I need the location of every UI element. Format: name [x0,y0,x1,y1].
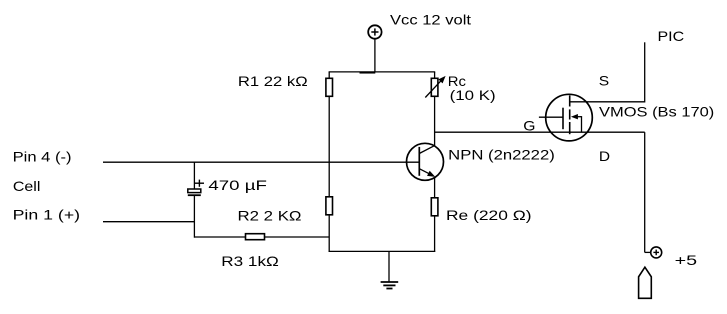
svg-text:(10 K): (10 K) [450,87,496,103]
connector plug symbol [639,267,652,298]
svg-text:Pin 1 (+): Pin 1 (+) [13,207,81,223]
wire Vcc stem [374,39,376,73]
power symbol Vcc [368,25,381,38]
wire right rail Re to bottom bus [434,216,436,252]
svg-text:+5: +5 [675,252,698,268]
transistor Q1 NPN [407,143,444,180]
wire R3 row [194,236,329,238]
svg-text:D: D [599,148,610,164]
transistor U1 VMOS [539,94,592,141]
wire right rail bus to Rc [434,72,436,79]
wire top supply bus [329,71,436,73]
wire capacitor to R3 [193,195,195,238]
wire PIC riser [644,42,646,102]
wire Rc to collector node [434,96,436,145]
capacitor C1 (polarized) [188,162,204,195]
wire top bus overlap segment [360,72,376,74]
wire emitter to Re [434,177,436,198]
svg-text:G: G [523,117,535,133]
Rc wiper arrow [425,76,445,98]
svg-text:PIC: PIC [658,28,685,44]
svg-text:Pin 4 (-): Pin 4 (-) [13,149,72,165]
svg-text:Re (220 Ω): Re (220 Ω) [446,207,532,223]
svg-text:Vcc 12 volt: Vcc 12 volt [390,12,471,28]
svg-text:S: S [599,73,609,89]
wire left rail R1 to R2 [328,96,330,197]
wire Pin 1 to capacitor node [103,221,194,223]
power symbol +5 [651,247,662,258]
resistor Re [431,198,438,216]
wire left rail bus to R1 [328,72,330,79]
wire left rail R2 to bottom bus [328,215,330,252]
wire Pin 4 to base [103,161,419,163]
ground [381,251,399,288]
resistor Rc (variable) [431,78,438,96]
svg-text:NPN (2n2222): NPN (2n2222) [448,147,555,163]
wire source to PIC riser [570,101,645,103]
wire drain to +5 [645,132,651,252]
resistor R2 [326,197,333,215]
wire collector to MOSFET drain node [435,131,645,133]
svg-text:VMOS (Bs 170): VMOS (Bs 170) [599,104,714,120]
svg-text:R2 2 KΩ: R2 2 KΩ [238,208,302,224]
svg-text:R3 1kΩ: R3 1kΩ [221,253,279,269]
svg-text:R1 22 kΩ: R1 22 kΩ [238,73,308,89]
svg-text:Cell: Cell [13,178,41,194]
wire bottom bus [329,250,436,252]
resistor R1 [326,78,333,96]
svg-text:470 µF: 470 µF [208,177,267,193]
resistor R3 [246,234,265,240]
